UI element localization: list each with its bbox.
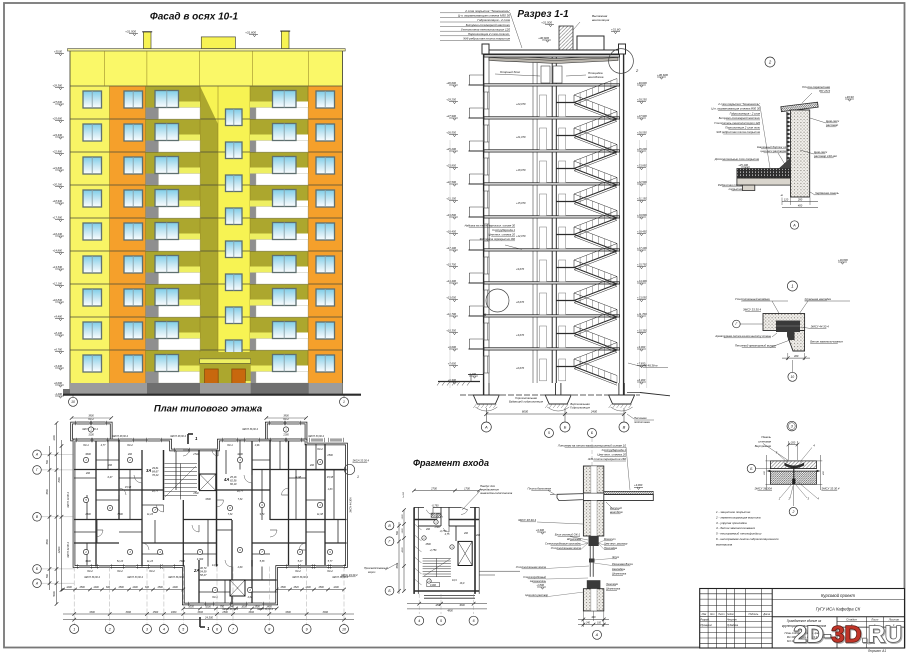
svg-text:+23,850: +23,850	[637, 163, 647, 167]
wall section floor slab right	[604, 483, 654, 514]
svg-text:1: 1	[357, 475, 359, 479]
svg-text:вентиляция: вентиляция	[592, 18, 610, 22]
svg-text:2D-3D.RU: 2D-3D.RU	[794, 621, 902, 647]
plan right axis circles	[341, 521, 398, 595]
facade staircase windows center column	[226, 109, 243, 357]
svg-text:16,9: 16,9	[460, 582, 465, 585]
svg-text:+30,90: +30,90	[845, 95, 854, 99]
svg-text:ОК-2: ОК-2	[327, 570, 333, 573]
svg-text:ЭКСН 44.30А: ЭКСН 44.30А	[350, 497, 353, 513]
svg-text:+24,330: +24,330	[53, 133, 63, 137]
svg-text:2,62: 2,62	[247, 596, 253, 599]
fragment ramp hatch	[415, 524, 422, 585]
svg-text:Уплотнительная лента: Уплотнительная лента	[516, 565, 547, 569]
svg-text:Утеплитель-пенополистирол 120: Утеплитель-пенополистирол 120	[461, 27, 510, 31]
svg-text:1x150: 1x150	[403, 491, 405, 498]
svg-text:16,77: 16,77	[237, 490, 244, 493]
svg-text:+8,130: +8,130	[54, 331, 63, 335]
svg-text:Дата: Дата	[762, 613, 770, 616]
svg-text:4,75: 4,75	[445, 533, 450, 536]
svg-text:+15,750: +15,750	[637, 262, 647, 266]
svg-text:ОК-2: ОК-2	[127, 444, 133, 447]
svg-text:3300: 3300	[205, 498, 211, 501]
svg-text:1700: 1700	[464, 486, 470, 490]
svg-text:ЭКСН 48,30.4: ЭКСН 48,30.4	[170, 435, 186, 438]
plan bay interiors	[88, 427, 289, 437]
svg-text:ОК-2: ОК-2	[117, 570, 123, 573]
svg-text:1400: 1400	[132, 586, 138, 589]
format note	[868, 649, 887, 653]
svg-text:1500: 1500	[222, 611, 228, 614]
svg-text:ЭКСН 33.30.4: ЭКСН 33.30.4	[353, 459, 370, 463]
svg-text:Набивка на тепло-звукоизол. ос: Набивка на тепло-звукоизол. основе 30	[465, 224, 516, 228]
svg-text:А: А	[595, 633, 599, 637]
section roof composition labels	[440, 9, 522, 48]
svg-text:1500: 1500	[402, 514, 404, 520]
svg-text:Накладець: Накладець	[612, 567, 626, 571]
facade balconies column 5	[250, 91, 308, 384]
detail 2 dimensions	[781, 194, 818, 208]
svg-text:+14,400: +14,400	[637, 279, 647, 283]
svg-text:ЭКСН 36,30.4: ЭКСН 36,30.4	[242, 428, 258, 431]
svg-text:+12,180: +12,180	[53, 281, 63, 285]
svg-text:ЭМСУ 33.30.4: ЭМСУ 33.30.4	[821, 487, 839, 491]
detail 1 embed joint drawing (L-block)	[763, 314, 805, 352]
fragment title: Фрагмент входа	[413, 458, 489, 468]
svg-text:АВ 48,36-м: АВ 48,36-м	[642, 364, 657, 368]
section ground floor and foundation	[437, 375, 670, 412]
section roof slab and parapet	[482, 44, 626, 64]
detail 2 ribbed slab	[718, 178, 791, 191]
detail 2 slope fillet label	[757, 145, 787, 166]
svg-text:3300: 3300	[248, 611, 254, 614]
svg-text:Пароизоляция 2 слоя поли: Пароизоляция 2 слоя поли	[725, 126, 760, 130]
svg-text:4000: 4000	[401, 547, 404, 553]
svg-text:+3,300: +3,300	[536, 528, 545, 532]
facade axis circle 1	[340, 396, 349, 407]
svg-text:+25,200: +25,200	[637, 147, 647, 151]
svg-text:3000: 3000	[459, 604, 465, 607]
svg-text:+13,050: +13,050	[446, 295, 456, 299]
svg-text:7,34: 7,34	[238, 498, 243, 501]
svg-text:Цем-песч раствор: Цем-песч раствор	[525, 593, 548, 597]
svg-text:-1,200: -1,200	[55, 392, 63, 396]
svg-text:Г: Г	[736, 322, 738, 326]
svg-text:+9,000: +9,000	[448, 345, 457, 349]
svg-text:мороз: мороз	[368, 571, 376, 574]
wall section floor composition labels	[557, 443, 630, 490]
detail 1 right labels	[801, 325, 843, 344]
plan lift shaft lower block	[230, 580, 245, 596]
detail 2 parapet cap plate	[781, 85, 854, 112]
svg-text:+30,600: +30,600	[446, 81, 456, 85]
svg-text:0,47: 0,47	[108, 476, 113, 479]
svg-text:+19,800: +19,800	[637, 213, 647, 217]
svg-text:+29,250: +29,250	[637, 97, 647, 101]
svg-text:11,23: 11,23	[147, 560, 154, 563]
detail 1 callout circle	[787, 281, 797, 291]
wall section bottom dims	[578, 611, 609, 627]
svg-text:4: 4	[163, 627, 165, 631]
svg-text:+17,100: +17,100	[637, 246, 647, 250]
svg-text:1520: 1520	[293, 586, 299, 589]
svg-text:10: 10	[791, 375, 795, 379]
svg-text:План типового этажа: План типового этажа	[154, 404, 262, 415]
plan interior walls horizontal	[74, 460, 347, 592]
svg-text:30,74: 30,74	[200, 566, 207, 570]
svg-text:-0,750: -0,750	[431, 504, 439, 507]
plan title: План типового этажа	[154, 404, 262, 415]
svg-text:цем-песч раствора: цем-песч раствора	[761, 149, 787, 153]
svg-text:Пароизоляция 2 слоя полиэт.: Пароизоляция 2 слоя полиэт.	[468, 32, 510, 36]
wall section balcony slab	[528, 487, 584, 501]
svg-text:3: 3	[146, 627, 148, 631]
svg-text:вентблока: вентблока	[588, 75, 604, 79]
svg-text:Шпунтовка: Шпунтовка	[567, 537, 582, 541]
svg-text:1500: 1500	[402, 528, 404, 534]
svg-text:Дополнительные слои покрытия: Дополнительные слои покрытия	[714, 157, 760, 161]
svg-text:6000: 6000	[522, 410, 529, 414]
fragment ramp label	[462, 484, 513, 510]
svg-text:+9,000: +9,000	[637, 345, 646, 349]
svg-text:Панель: Панель	[761, 435, 771, 439]
facade windows column 2 (orange)	[124, 91, 143, 372]
section foundation labels	[468, 363, 668, 424]
svg-text:ОК-2: ОК-2	[295, 570, 301, 573]
svg-text:45,16: 45,16	[230, 475, 237, 479]
facade ground line	[63, 394, 361, 396]
svg-text:3100: 3100	[88, 434, 94, 437]
svg-text:А: А	[792, 223, 796, 227]
svg-text:940: 940	[230, 605, 235, 608]
svg-text:+10,350: +10,350	[637, 328, 647, 332]
svg-text:2742: 2742	[192, 453, 199, 456]
facade building body columns	[70, 51, 343, 383]
svg-text:400: 400	[798, 204, 803, 208]
svg-text:Ж/б ребристая плита покрытия: Ж/б ребристая плита покрытия	[715, 130, 760, 134]
svg-text:+27,900: +27,900	[446, 114, 456, 118]
title block texts	[701, 593, 900, 645]
svg-text:Бетон замоноличивания: Бетон замоноличивания	[810, 340, 843, 344]
svg-text:Ц-п. выравнивающая стяжка М50: Ц-п. выравнивающая стяжка М50 30	[458, 14, 510, 18]
facade left elevation marks	[53, 49, 64, 398]
svg-text:+25,100: +25,100	[738, 163, 748, 167]
detail 3 axis circle Б	[747, 464, 770, 472]
svg-text:120: 120	[784, 198, 789, 202]
svg-text:12000: 12000	[58, 546, 61, 553]
detail 2 right labels cement mortar	[800, 118, 840, 158]
svg-text:+17,100: +17,100	[446, 246, 456, 250]
svg-text:49,61: 49,61	[152, 466, 159, 470]
svg-text:+7,650: +7,650	[448, 361, 457, 365]
svg-text:14,59: 14,59	[212, 564, 219, 567]
fragment leader line right	[452, 571, 520, 582]
svg-text:5,77: 5,77	[328, 560, 333, 563]
svg-text:Цем-песч. раствор: Цем-песч. раствор	[604, 541, 628, 545]
svg-text:11,23: 11,23	[147, 513, 154, 516]
svg-text:10: 10	[342, 627, 346, 631]
svg-text:ЭКСН 36,30.4: ЭКСН 36,30.4	[292, 576, 308, 579]
wall section window frame	[516, 546, 633, 583]
svg-text:4400: 4400	[237, 453, 243, 456]
svg-text:+9,070: +9,070	[516, 267, 525, 271]
svg-text:1400: 1400	[305, 586, 311, 589]
svg-text:+25,680: +25,680	[53, 116, 63, 120]
svg-text:+18,450: +18,450	[637, 229, 647, 233]
detail 1 dimension 400	[782, 353, 810, 360]
svg-text:+29,250: +29,250	[446, 97, 456, 101]
section mid floor composition labels	[465, 224, 522, 250]
svg-text:400: 400	[591, 616, 596, 619]
svg-text:ОК-2: ОК-2	[317, 448, 323, 451]
fragment small texts	[422, 520, 481, 613]
svg-text:3300: 3300	[126, 611, 132, 614]
svg-text:200: 200	[85, 472, 91, 475]
svg-text:24,300: 24,300	[204, 616, 213, 620]
svg-text:3300: 3300	[323, 611, 329, 614]
svg-text:+23,850: +23,850	[446, 163, 456, 167]
wall section upper wall	[583, 466, 603, 493]
section roof chimney	[538, 14, 610, 50]
svg-text:1500: 1500	[153, 611, 159, 614]
svg-text:Производственный: Производственный	[364, 566, 389, 570]
detail 3 section circle 2	[789, 484, 797, 516]
svg-text:Линолеум: Линолеум	[605, 582, 618, 586]
svg-text:200: 200	[764, 470, 766, 475]
detail 2 parapet wall (stipple)	[787, 110, 810, 197]
svg-text:+21,150: +21,150	[637, 196, 647, 200]
svg-text:+5,430: +5,430	[54, 364, 63, 368]
section roof penthouse	[577, 27, 621, 50]
svg-text:Ж/б плита перекрытия 160: Ж/б плита перекрытия 160	[478, 237, 515, 241]
svg-text:4,300: 4,300	[197, 558, 204, 561]
svg-text:-1,800: -1,800	[536, 583, 544, 587]
svg-text:Шпунтовка: Шпунтовка	[612, 572, 627, 576]
svg-text:1400: 1400	[172, 586, 178, 589]
svg-text:+21,150: +21,150	[446, 196, 456, 200]
svg-text:+3,000: +3,000	[634, 483, 643, 487]
svg-text:Ж/б плита перекрытия 160: Ж/б плита перекрытия 160	[587, 457, 627, 461]
fragment stairs	[423, 558, 451, 577]
section left elevation marks	[446, 81, 458, 384]
section right elevation marks	[637, 81, 647, 384]
svg-text:+16,230: +16,230	[53, 232, 63, 236]
svg-text:3 - упругая прокладка: 3 - упругая прокладка	[716, 521, 747, 525]
svg-text:Битумно-полимерной мастики: Битумно-полимерной мастики	[719, 116, 761, 120]
svg-text:2А: 2А	[193, 568, 199, 573]
svg-text:+12,070: +12,070	[516, 234, 526, 238]
svg-text:4,77: 4,77	[101, 444, 106, 447]
plan detail callout circle right wall	[344, 464, 359, 479]
svg-text:раствор: раствор	[825, 123, 839, 127]
svg-text:1500: 1500	[327, 454, 333, 457]
svg-text:ЭМСУ 33.30.4: ЭМСУ 33.30.4	[743, 308, 761, 312]
svg-text:+28,380: +28,380	[53, 83, 63, 87]
svg-text:+18,070: +18,070	[516, 168, 526, 172]
svg-text:1500: 1500	[254, 605, 260, 608]
svg-text:ЭКСН 33,30.4: ЭКСН 33,30.4	[127, 576, 143, 579]
svg-text:11,98: 11,98	[317, 513, 324, 516]
plan windows top wall	[76, 421, 345, 606]
svg-text:Плита балконная: Плита балконная	[528, 487, 552, 491]
svg-text:ЭКСН 36,30.4: ЭКСН 36,30.4	[84, 576, 100, 579]
detail 1 labels top	[735, 297, 850, 317]
svg-text:7500: 7500	[117, 513, 123, 516]
svg-text:1,63: 1,63	[328, 488, 333, 491]
svg-text:2 слоя покрытия "Технониколь": 2 слоя покрытия "Технониколь"	[717, 102, 761, 106]
svg-text:3900: 3900	[88, 415, 94, 418]
svg-text:6: 6	[216, 627, 218, 631]
svg-text:80,19: 80,19	[230, 482, 237, 486]
svg-text:4800: 4800	[447, 610, 453, 613]
facade base (plinth)	[63, 383, 343, 395]
svg-text:+31,500: +31,500	[541, 20, 552, 24]
roof elevation mark +31,500	[125, 29, 138, 35]
plan room number circles	[83, 457, 332, 592]
svg-text:Цем-песч. стяжка 20: Цем-песч. стяжка 20	[488, 233, 515, 237]
svg-text:1200: 1200	[333, 586, 339, 589]
svg-text:2400: 2400	[590, 410, 598, 414]
svg-text:+26,550: +26,550	[446, 130, 456, 134]
svg-text:+16,800: +16,800	[838, 258, 848, 262]
svg-text:4 - бетон замоноличивания: 4 - бетон замоноличивания	[716, 526, 755, 530]
detail 2 left roof composition labels	[711, 102, 770, 168]
svg-text:1800: 1800	[171, 611, 177, 614]
detail 2 attic panel label	[810, 191, 839, 195]
fragment elevator	[458, 541, 472, 565]
svg-text:Битумно-полимерной мастики: Битумно-полимерной мастики	[466, 23, 511, 27]
svg-text:+0,000: +0,000	[54, 381, 63, 385]
svg-text:Разрез 1-1: Разрез 1-1	[517, 9, 569, 20]
svg-text:Прокладка: Прокладка	[604, 546, 618, 550]
plan right wall labels	[350, 459, 370, 513]
svg-text:Шпунтовка: Шпунтовка	[606, 587, 621, 591]
svg-text:9: 9	[306, 627, 308, 631]
svg-text:Петлевой арматурный выпуск: Петлевой арматурный выпуск	[735, 344, 777, 348]
title block frame	[700, 589, 905, 649]
svg-text:+6,300: +6,300	[637, 378, 646, 382]
svg-text:2: 2	[791, 510, 794, 514]
svg-text:+25,200: +25,200	[446, 147, 456, 151]
svg-text:ГуГУ ИСА Кафедра СК: ГуГУ ИСА Кафедра СК	[816, 607, 861, 612]
svg-text:5 - несгораемый теплофолдыш: 5 - несгораемый теплофолдыш	[716, 532, 762, 536]
svg-text:1 - защитное покрытие: 1 - защитное покрытие	[716, 510, 751, 514]
svg-text:№док: №док	[727, 613, 734, 616]
svg-text:1400: 1400	[93, 586, 99, 589]
wall section sill joint	[525, 580, 620, 597]
section room level texts	[516, 102, 526, 370]
svg-text:1200: 1200	[53, 435, 56, 441]
svg-text:1200: 1200	[66, 586, 72, 589]
fragment plan walls	[414, 507, 479, 598]
svg-text:820: 820	[145, 586, 150, 589]
svg-text:280: 280	[797, 198, 803, 202]
svg-text:500: 500	[396, 530, 399, 535]
svg-text:+30,600: +30,600	[657, 73, 668, 77]
svg-text:Слой рубероида 1: Слой рубероида 1	[602, 448, 627, 452]
svg-text:200: 200	[463, 532, 469, 535]
facade entrance: canopy, doors	[200, 352, 251, 394]
svg-text:Будующей гидроизоляция: Будующей гидроизоляция	[509, 400, 544, 404]
svg-text:+19,800: +19,800	[446, 213, 456, 217]
svg-text:+15,750: +15,750	[446, 262, 456, 266]
svg-text:3300: 3300	[285, 611, 291, 614]
svg-text:инвалидов-колясочников: инвалидов-колясочников	[480, 491, 513, 495]
svg-text:+10,350: +10,350	[446, 328, 456, 332]
svg-text:Утеплитель-пенополистирол 120: Утеплитель-пенополистирол 120	[714, 121, 760, 125]
detail 3 bottom labels	[754, 482, 839, 501]
section staircase zigzag flights	[556, 79, 617, 386]
svg-text:1500: 1500	[280, 586, 286, 589]
section detail callout circle 2	[609, 49, 639, 74]
svg-text:51,23: 51,23	[117, 560, 124, 563]
svg-text:+13,050: +13,050	[637, 295, 647, 299]
plan scattered dimension texts	[82, 428, 348, 611]
svg-text:+21,070: +21,070	[516, 135, 526, 139]
svg-text:Цем-песч. стяжка 20: Цем-песч. стяжка 20	[597, 453, 626, 457]
section interior door openings	[540, 95, 566, 381]
svg-text:5,38: 5,38	[260, 560, 265, 563]
detail 2 callout circle	[765, 57, 775, 67]
svg-text:58,27: 58,27	[200, 573, 207, 577]
fragment bottom dims and axes	[407, 594, 487, 625]
detail 3 joint drawing	[764, 455, 825, 490]
svg-text:Фрагмент входа: Фрагмент входа	[413, 458, 489, 468]
svg-text:ОК-2: ОК-2	[283, 418, 289, 421]
svg-text:Опорный блок: Опорный блок	[500, 70, 521, 74]
svg-text:Утеплительный вкладыш: Утеплительный вкладыш	[735, 297, 771, 301]
wall section window head joint	[536, 528, 628, 550]
plan section cut marks 1-1	[188, 434, 210, 631]
section balcony slabs and railings (left)	[469, 75, 485, 349]
svg-text:+13,530: +13,530	[53, 265, 63, 269]
svg-text:1030: 1030	[188, 605, 194, 608]
svg-text:ЭМСУ 48.30.4: ЭМСУ 48.30.4	[518, 518, 536, 522]
svg-text:500: 500	[46, 459, 49, 464]
svg-text:1: 1	[73, 627, 75, 631]
detail 3 left labels panel	[755, 435, 789, 461]
svg-text:стеновая: стеновая	[758, 440, 771, 444]
svg-text:+24,070: +24,070	[516, 102, 526, 106]
svg-text:Гидроизоляция: Гидроизоляция	[570, 406, 590, 410]
svg-text:Чердачная панель: Чердачная панель	[815, 191, 839, 195]
svg-text:Арматурная сетка на всю высоту: Арматурная сетка на всю высоту стены	[714, 334, 771, 338]
svg-text:вентблок: вентблок	[610, 510, 623, 514]
svg-text:Линолеум на тепло-звукоизоляци: Линолеум на тепло-звукоизоляционной осно…	[557, 443, 626, 447]
facade windows column 1	[83, 91, 102, 372]
svg-text:4500: 4500	[46, 489, 49, 495]
svg-text:+11,700: +11,700	[637, 312, 647, 316]
svg-text:500: 500	[46, 573, 49, 578]
svg-text:ЭКСН 33,30.4: ЭКСН 33,30.4	[308, 435, 324, 438]
svg-text:76,24: 76,24	[152, 473, 159, 477]
svg-text:Б: Б	[564, 424, 567, 429]
svg-text:+30,600: +30,600	[637, 81, 647, 85]
svg-text:9,74: 9,74	[260, 513, 265, 516]
svg-text:200: 200	[790, 441, 796, 445]
svg-text:+31,60: +31,60	[611, 27, 621, 31]
facade windows column 6 (orange right)	[316, 91, 335, 372]
svg-text:4: 4	[418, 619, 420, 623]
svg-text:+27,900: +27,900	[637, 114, 647, 118]
section building outer walls	[484, 54, 624, 395]
svg-text:200: 200	[107, 464, 113, 467]
plan axis circles bottom 1-10	[70, 567, 349, 634]
svg-text:Резиновая Вэсла: Резиновая Вэсла	[612, 562, 633, 566]
svg-text:69,67: 69,67	[152, 470, 159, 474]
svg-text:Ж/б ребристая плита покрытия: Ж/б ребристая плита покрытия	[462, 37, 510, 41]
section floor slabs	[484, 55, 620, 350]
